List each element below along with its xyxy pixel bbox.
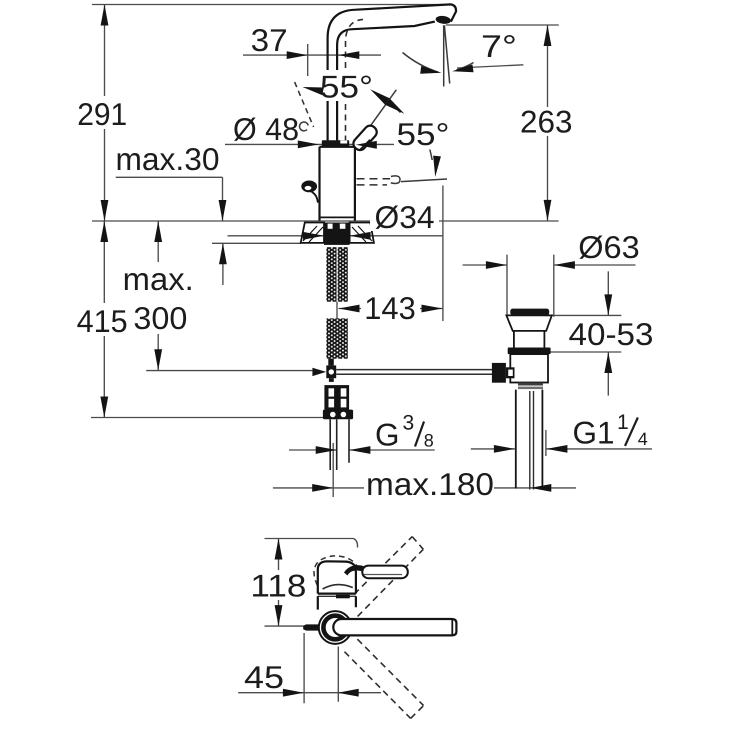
svg-text:118: 118 <box>250 568 306 604</box>
arrowheads max.30 <box>219 200 227 221</box>
lever open-position line (55 deg leg A) <box>356 90 397 147</box>
dimension max.180 line <box>273 487 576 489</box>
spout base cap slot <box>340 140 347 143</box>
drain tailpipe <box>516 390 543 489</box>
faucet body <box>320 147 355 221</box>
arrowheads 143 <box>339 305 360 313</box>
flange right hatching <box>352 226 372 242</box>
svg-text:263: 263 <box>520 104 573 140</box>
lever handle <box>351 123 379 152</box>
7 deg angle arc <box>403 53 474 73</box>
svg-text:45: 45 <box>244 659 284 695</box>
arrowheads 291 <box>101 5 109 26</box>
dimension 37 line <box>243 54 381 56</box>
svg-text:Ø34: Ø34 <box>375 199 435 235</box>
bottom view: spout rod <box>333 619 456 635</box>
drain cap skirt <box>506 315 551 331</box>
arrowhead 55deg first leader <box>302 83 324 95</box>
dimension 7 deg tail line <box>457 65 523 68</box>
svg-text:291: 291 <box>77 96 127 132</box>
svg-text:max.30: max.30 <box>116 141 220 177</box>
flange bottom reference line <box>212 242 301 244</box>
svg-text:max.180: max.180 <box>366 466 494 502</box>
mounting deck line <box>92 220 559 222</box>
drain side tee block <box>492 363 506 383</box>
arrowheads 415 <box>100 221 108 242</box>
dimension Ø34 line <box>228 235 443 237</box>
flange left trapezoid <box>301 223 324 243</box>
bottom view: swivel base ring <box>323 616 347 640</box>
svg-text:Ø 48: Ø 48 <box>233 111 299 147</box>
threaded studs upper section <box>326 247 347 302</box>
dimension 143 extension line <box>442 186 444 322</box>
flange right trapezoid <box>350 223 374 243</box>
svg-text:300: 300 <box>133 300 187 336</box>
arrowheads Ø34 <box>303 232 324 240</box>
G3/8 connector block <box>324 385 349 412</box>
svg-text:143: 143 <box>364 290 416 326</box>
bottom view: 118 bottom reference line <box>265 625 319 627</box>
bottom view: spout swivel dashed rod upper <box>354 537 423 617</box>
svg-text:G: G <box>375 417 400 453</box>
hose tee nut <box>326 365 336 378</box>
pop-up rod double line <box>336 370 492 375</box>
spout tip extension line <box>446 24 559 26</box>
flange left hatching <box>303 226 323 242</box>
cartridge dashed rows <box>357 179 391 185</box>
bottom view: dimension 45 line <box>238 692 381 694</box>
bottom view: spout swivel dashed rod lower <box>345 639 424 718</box>
dimension 263 line <box>547 25 549 221</box>
svg-text:G1: G1 <box>573 414 615 450</box>
dimension 37 extension line <box>307 44 309 76</box>
svg-text:7°: 7° <box>481 28 517 64</box>
drain flange ring <box>508 348 551 355</box>
svg-text:max.: max. <box>123 261 194 297</box>
aerator <box>435 15 451 25</box>
dimension 291 line <box>104 5 106 222</box>
arrowheads 37 <box>287 51 308 59</box>
arrowheads 55deg second <box>368 86 390 105</box>
dimension 40-53 reference lines <box>546 315 622 352</box>
bottom view: swivel base outer circle <box>319 611 352 644</box>
svg-text:37: 37 <box>251 22 288 58</box>
drain escutcheon body <box>510 354 548 382</box>
svg-text:3: 3 <box>403 412 415 435</box>
dimension Ø63 extension lines <box>507 255 554 317</box>
drain neck <box>514 331 545 348</box>
water stream vertical line <box>443 25 445 86</box>
hose arrowhead <box>312 368 326 376</box>
dimension 40-53 line <box>607 271 609 395</box>
bottom view: left pin <box>303 624 318 630</box>
arrowheads 40-53 <box>604 294 612 315</box>
arrowheads Ø48 <box>298 141 319 149</box>
arrowheads Ø63 <box>486 261 507 269</box>
svg-text:40-53: 40-53 <box>569 316 654 352</box>
dimension max.300 line <box>157 221 159 370</box>
spout inner curve <box>337 22 435 142</box>
arrowheads G1 1/4 <box>494 445 515 453</box>
arrowheads max.180 <box>312 484 333 492</box>
spout base black cap <box>322 140 349 147</box>
lever closed-position knob hook <box>391 176 400 184</box>
bottom view: lever stub <box>362 566 408 579</box>
stud stem <box>328 359 334 366</box>
arrowheads 263 <box>544 25 552 46</box>
bottom view: body top edge lines <box>318 592 356 594</box>
bottom view: dome inner arc <box>323 585 353 589</box>
svg-text:8: 8 <box>424 431 434 451</box>
top reference line (spout tip level) <box>92 4 451 6</box>
threaded studs lower section <box>326 318 347 358</box>
dimension G1 1/4 extension line <box>545 430 547 456</box>
svg-text:55°: 55° <box>320 69 373 105</box>
dimension Ø63 line <box>463 264 636 266</box>
text halos <box>92 70 576 600</box>
svg-text:415: 415 <box>77 303 128 339</box>
lever phantom dashed line (55 deg #1) <box>295 82 314 127</box>
supply hose level reference line <box>146 370 312 372</box>
drain pop-up cap <box>510 309 549 316</box>
supply hoses <box>330 419 349 470</box>
water stream 7 deg line <box>444 25 449 83</box>
stud seam <box>336 247 338 359</box>
dimension 415 line <box>103 221 105 418</box>
dimension Ø48 line <box>225 143 397 145</box>
hose end reference line <box>91 417 323 419</box>
dimension max.180 extension line <box>332 443 334 497</box>
drain escutcheon stripes <box>518 383 543 386</box>
bottom view: 118 top reference line <box>265 538 354 540</box>
bottom view: handle dome <box>318 561 356 593</box>
bottom view: dashed swivel ellipse <box>314 556 358 586</box>
7 deg arc arrowheads <box>420 66 442 77</box>
spout dashed centerline <box>346 19 364 141</box>
stud break centerline <box>336 302 338 319</box>
dimension 143 line <box>339 308 443 310</box>
arrowheads 118 <box>275 539 283 560</box>
spout outer curve <box>328 4 456 141</box>
bottom view: lever neck band <box>344 565 364 575</box>
drain rod double line <box>530 391 534 490</box>
arrowheads G3/8 <box>316 446 337 454</box>
lever tip arc <box>312 192 318 203</box>
arrowheads 45 <box>283 689 304 697</box>
dimension G1 1/4 line <box>471 448 652 450</box>
svg-text:55°: 55° <box>397 116 450 152</box>
dimension G3/8 line <box>289 449 435 451</box>
lever phantom knob hook <box>300 122 309 131</box>
svg-text:1: 1 <box>617 411 629 434</box>
dimension max.30 underline <box>116 177 223 221</box>
G3/8 connector base <box>323 410 353 420</box>
55 deg arc lower segment <box>430 149 432 160</box>
arrowheads max.300 <box>154 221 162 242</box>
faucet body bottom edge <box>320 216 355 218</box>
svg-text:4: 4 <box>638 429 648 449</box>
dimension max.30 lower extension <box>222 243 224 285</box>
lever closed-position line (55 deg leg B) <box>401 179 447 182</box>
lever tip on body left <box>301 181 317 193</box>
bottom view: body sides <box>318 596 356 609</box>
svg-text:Ø63: Ø63 <box>578 229 640 265</box>
threaded shank block <box>324 223 350 245</box>
55 deg arc upper segment <box>387 102 400 113</box>
bottom view: 45 extension lines <box>304 633 338 703</box>
bottom view: dimension 118 line <box>278 539 280 627</box>
